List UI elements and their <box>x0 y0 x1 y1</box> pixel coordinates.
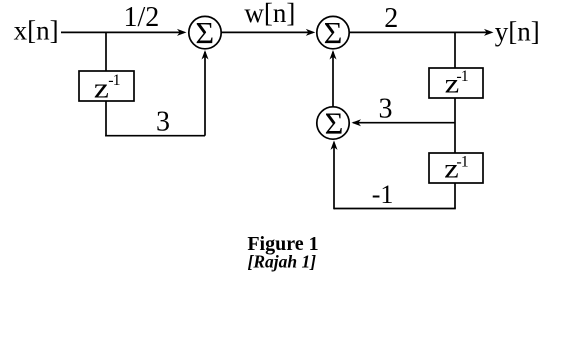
svg-text:z: z <box>94 72 109 103</box>
svg-text:-1: -1 <box>456 68 468 85</box>
svg-text:3: 3 <box>156 107 170 138</box>
svg-text:w[n]: w[n] <box>244 0 295 28</box>
svg-text:-1: -1 <box>108 72 120 89</box>
svg-text:-1: -1 <box>456 154 468 171</box>
svg-text:Σ: Σ <box>195 16 214 50</box>
svg-text:y[n]: y[n] <box>495 17 540 47</box>
svg-text:3: 3 <box>379 93 393 124</box>
svg-text:Σ: Σ <box>324 16 343 50</box>
svg-text:-1: -1 <box>372 180 394 209</box>
svg-text:[Rajah 1]: [Rajah 1] <box>248 252 317 272</box>
svg-text:1/2: 1/2 <box>124 2 160 33</box>
svg-text:Σ: Σ <box>325 106 344 140</box>
svg-text:2: 2 <box>384 3 398 34</box>
svg-text:x[n]: x[n] <box>14 15 59 45</box>
